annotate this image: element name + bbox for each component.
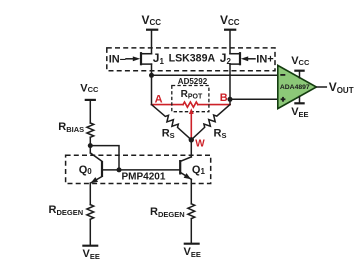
svg-text:IN+: IN+ (256, 54, 273, 66)
wire RBIAS to Q0 collector node (89, 137, 91, 145)
resistor RDEGEN (left) (87, 205, 94, 220)
junction dot node W (189, 137, 194, 142)
svg-text:PMP4201: PMP4201 (122, 171, 166, 182)
wire VCC to J1 drain (141, 30, 152, 54)
wire op-amp output (316, 86, 326, 88)
power VEE (op-amp) (291, 96, 308, 119)
wire node W to Q1 collector (190, 140, 192, 157)
wire collector-base tie (Q0 diode connection) (90, 146, 119, 170)
power VCC (J1 drain supply) (142, 13, 162, 30)
resistor RS (left) from node A to node W (152, 105, 192, 140)
svg-text:IN–: IN– (109, 54, 126, 66)
input IN+ arrow into J2 gate (241, 54, 274, 66)
svg-text:ADA4897: ADA4897 (280, 84, 310, 91)
wire base rail Q0 to Q1 (102, 169, 180, 171)
input IN- arrow into J1 gate (109, 54, 141, 66)
resistor RS (right) from node B to node W (191, 105, 230, 140)
op-amp minus input marker (280, 74, 285, 76)
wire J2 source down to node B corner (229, 64, 231, 105)
dashed box AD5292 digital potentiometer (172, 86, 209, 112)
op-amp plus input marker (281, 97, 286, 102)
wire Q0 emitter to RDEGEN (89, 183, 91, 204)
wire VCC to RBIAS (89, 100, 91, 123)
junction dot node B (228, 97, 233, 102)
svg-text:AD5292: AD5292 (178, 77, 208, 86)
svg-text:A: A (155, 94, 163, 106)
op-amp U1 ADA4897 (278, 65, 317, 108)
junction dot J1 source node (149, 73, 154, 78)
dashed box PMP4201 dual NPN (66, 155, 211, 183)
power VCC (J2 drain supply) (220, 13, 240, 30)
power VEE (left) (82, 246, 100, 261)
power VEE (right) (184, 244, 201, 259)
wire red node A to RPOT terminal (152, 104, 184, 106)
resistor RDEGEN (right) (188, 204, 195, 219)
wire RDEGEN to VEE (left) (89, 219, 91, 245)
JFET J2 (230, 52, 240, 65)
power VCC (bias chain) (80, 82, 99, 100)
wire Q1 emitter to RDEGEN (190, 179, 192, 204)
potentiometer RPOT element (red zigzag) (183, 102, 198, 107)
transistor Q0 (90, 146, 102, 184)
wire J1 source to op-amp inverting input (152, 74, 278, 76)
svg-text:B: B (220, 92, 228, 104)
transistor Q1 (180, 157, 191, 179)
wire node B to op-amp non-inverting input (230, 98, 278, 100)
svg-text:W: W (195, 138, 205, 149)
junction dot base rail (117, 167, 122, 172)
svg-text:LSK389A: LSK389A (169, 52, 216, 64)
power VCC (op-amp) (291, 55, 310, 78)
wire red RPOT terminal to node B (198, 104, 230, 106)
junction dot Q0 collector node (88, 143, 93, 148)
wire VCC to J2 drain (230, 30, 240, 54)
resistor RBIAS (87, 123, 94, 137)
wiper arrow from node W to RPOT (189, 108, 194, 140)
wire RDEGEN to VEE (right) (190, 219, 192, 244)
JFET J1 (141, 52, 152, 65)
dashed box LSK389A dual JFET (107, 48, 275, 71)
wire J1 source down to node A corner (151, 64, 153, 105)
